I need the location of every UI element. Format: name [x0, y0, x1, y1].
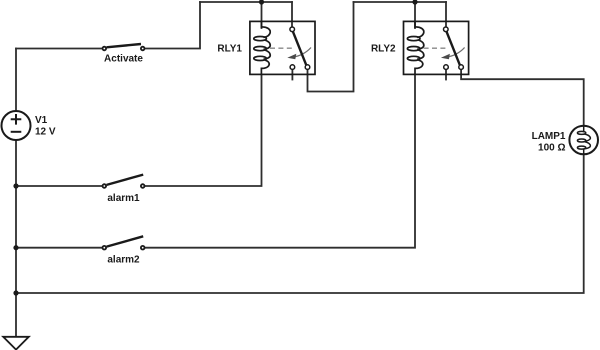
RLY1 common contact [290, 27, 295, 32]
svg-text:RLY1: RLY1 [217, 44, 242, 55]
node junction rail1/coil [259, 0, 264, 5]
switch alarm2 [103, 236, 145, 249]
node junction left rail bottom [13, 290, 18, 295]
svg-text:V1: V1 [35, 115, 48, 126]
wire rail1 to RLY1 switch common [291, 2, 293, 26]
node junction rail2/coil [412, 0, 417, 5]
svg-text:12 V: 12 V [35, 127, 56, 138]
svg-text:alarm2: alarm2 [107, 255, 140, 266]
lamp filament [577, 126, 590, 155]
wire alarm1 row right to RLY1 coil [145, 74, 261, 186]
RLY2 dashed actuator line [424, 47, 449, 49]
wire alarm2 row left [16, 247, 102, 249]
wire alarm2 row right to RLY2 coil [145, 74, 415, 247]
wire left drop from rail1 to Activate row [146, 2, 201, 49]
wire top rail 2 [354, 1, 447, 3]
RLY2 arrow [447, 48, 465, 58]
RLY1 NO contact [305, 65, 310, 70]
switch alarm1 [103, 175, 145, 188]
wire RLY1 NC stub [291, 70, 293, 80]
wire rail2 to RLY2 coil top [414, 2, 416, 28]
RLY2 NO contact [459, 65, 464, 70]
voltage source V1 [2, 111, 31, 140]
RLY2 common contact [444, 27, 449, 32]
wire left rail upper (Activate to V1) [15, 49, 17, 112]
wire left rail lower (V1 to ground) [15, 140, 17, 337]
svg-text:RLY2: RLY2 [371, 44, 396, 55]
relay RLY1 [250, 21, 315, 74]
svg-text:100 Ω: 100 Ω [538, 143, 565, 154]
RLY1 arrow [293, 48, 311, 58]
svg-text:Activate: Activate [104, 54, 143, 65]
RLY2 NC contact [444, 65, 449, 70]
wire top rail 1 [200, 1, 292, 3]
wire alarm1 row left [16, 185, 102, 187]
relay RLY2 [404, 21, 469, 74]
wire rail2 to RLY2 switch common [445, 2, 447, 26]
wire RLY1 NO contact to rail 2 [308, 2, 354, 92]
wire Activate row left [16, 48, 102, 50]
switch Activate [103, 44, 145, 50]
wire RLY2 NC stub [445, 70, 447, 80]
RLY2 body [404, 21, 469, 74]
wire RLY2 NO contact to lamp top [461, 70, 584, 126]
wire lamp bottom to bottom rail [16, 154, 584, 293]
ground [3, 337, 29, 350]
RLY1 coil [254, 22, 270, 75]
RLY1 dashed actuator line [270, 47, 295, 49]
svg-text:LAMP1: LAMP1 [532, 131, 566, 142]
wire rail1 to RLY1 coil top [261, 2, 263, 28]
RLY1 switch blade [293, 32, 306, 65]
lamp LAMP1 [569, 126, 598, 155]
node junction left rail alarm1 [13, 183, 18, 188]
RLY2 coil [407, 22, 423, 75]
RLY1 NC contact [290, 65, 295, 70]
RLY2 switch blade [447, 32, 460, 65]
svg-text:alarm1: alarm1 [107, 193, 140, 204]
RLY1 body [250, 21, 315, 74]
node junction left rail alarm2 [13, 245, 18, 250]
